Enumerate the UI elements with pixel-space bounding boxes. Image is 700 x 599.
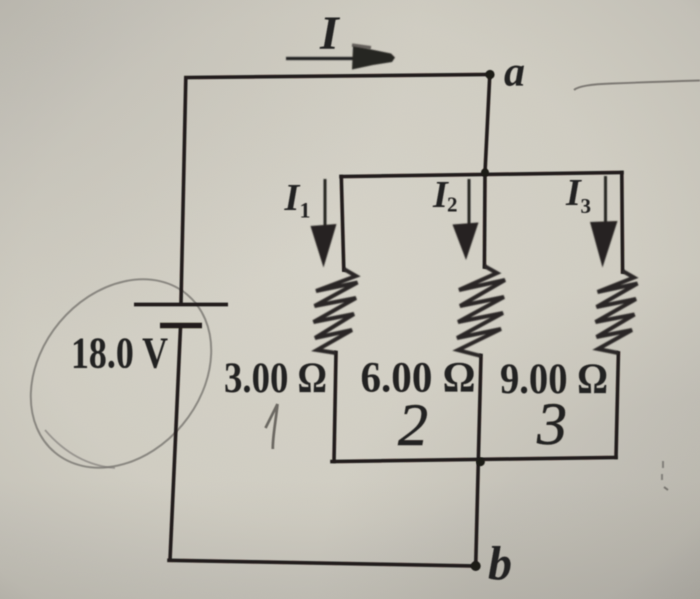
branch number 1 (pencil) xyxy=(266,404,278,449)
wire branch 1 top drop xyxy=(341,177,344,271)
node a junction dot xyxy=(485,70,494,79)
svg-text:3.00 Ω: 3.00 Ω xyxy=(224,355,327,402)
wire parallel-bank bottom bus xyxy=(332,458,616,462)
pencil oval around battery xyxy=(0,243,248,504)
current arrow I (top, pointing right) xyxy=(286,57,356,60)
wire branch 2 top drop xyxy=(483,173,487,268)
junction dot bottom bus xyxy=(476,457,485,466)
junction dot top bus xyxy=(481,169,489,177)
current arrow I2 (pointing down) xyxy=(468,179,471,229)
svg-text:2: 2 xyxy=(447,193,458,217)
current arrow I3 (pointing down) xyxy=(604,176,607,226)
resistor R1 3.00 ohm zigzag xyxy=(314,269,358,353)
battery B1 long plate (+) xyxy=(134,303,228,307)
svg-text:3: 3 xyxy=(581,194,592,218)
wire top (battery + to node a) xyxy=(186,75,490,78)
wire branch 3 top drop xyxy=(620,173,624,273)
node b junction dot xyxy=(471,561,481,571)
battery B1 short plate (-) xyxy=(160,323,202,328)
pencil specks right edge xyxy=(661,461,668,490)
current arrow I1 (pointing down) xyxy=(324,179,327,233)
svg-text:I: I xyxy=(284,177,301,219)
svg-text:3: 3 xyxy=(536,391,567,457)
wire branch 1 bottom drop xyxy=(334,353,336,462)
svg-text:18.0 V: 18.0 V xyxy=(71,329,168,378)
wire left lower (battery - down to bottom) xyxy=(170,327,181,560)
wire node a down to top bus junction xyxy=(485,75,490,173)
svg-text:I: I xyxy=(565,172,582,214)
svg-text:1: 1 xyxy=(300,198,311,223)
svg-text:a: a xyxy=(504,50,525,96)
wire branch 3 bottom drop xyxy=(616,353,618,458)
svg-text:b: b xyxy=(488,537,512,590)
resistor R2 6.00 ohm zigzag xyxy=(457,266,505,356)
wire branch 2 bottom drop xyxy=(478,356,481,462)
svg-text:I: I xyxy=(319,7,341,60)
wire parallel-bank top bus xyxy=(341,173,622,177)
resistor R3 9.00 ohm zigzag xyxy=(596,271,638,353)
svg-text:2: 2 xyxy=(398,392,428,458)
pencil stray curve top right xyxy=(574,81,700,91)
wire riser from node b up to parallel bank xyxy=(476,462,479,566)
wire left upper (battery top plate up) xyxy=(181,78,186,303)
wire bottom (to node b) xyxy=(169,560,476,566)
